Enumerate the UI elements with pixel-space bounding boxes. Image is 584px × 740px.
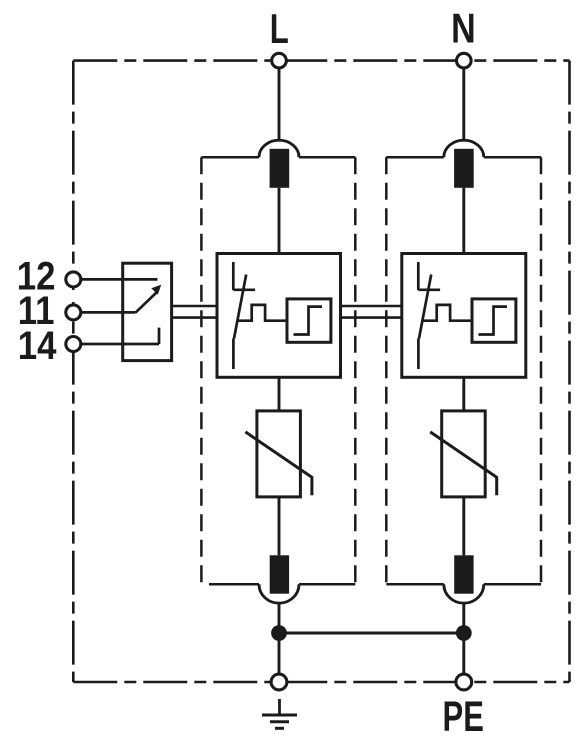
- svg-text:PE: PE: [443, 692, 484, 740]
- svg-text:14: 14: [18, 323, 57, 368]
- svg-text:N: N: [451, 7, 476, 53]
- svg-text:L: L: [270, 6, 289, 52]
